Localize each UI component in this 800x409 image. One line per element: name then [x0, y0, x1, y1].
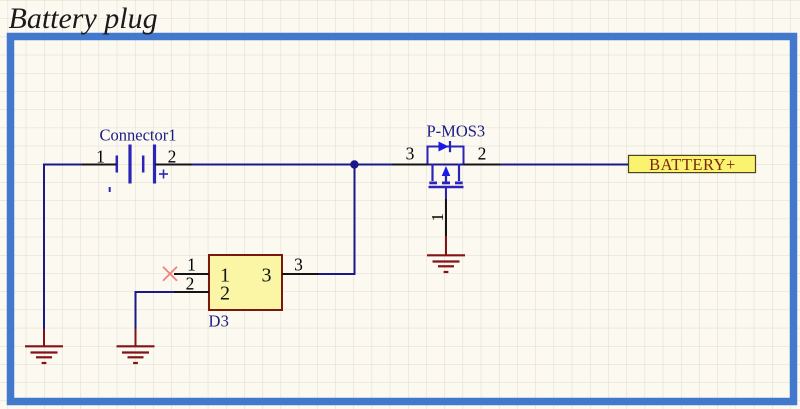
body-diode cathode bar	[449, 141, 451, 152]
title: Battery plug	[9, 2, 158, 35]
wire: from D3 pin2 left to GND	[136, 291, 175, 293]
svg-text:1: 1	[187, 255, 196, 275]
polarity label + of Connector1	[159, 170, 168, 179]
body arrow of P-MOS3	[442, 166, 451, 176]
gate plate of P-MOS3	[429, 186, 464, 189]
pin 2 of Connector1	[155, 164, 192, 166]
pin 1 of D3	[174, 273, 209, 275]
svg-text:2: 2	[220, 283, 230, 305]
wire: battery pin1 to left corner	[43, 164, 82, 166]
wire: left vertical from battery pin 1 down to GND	[43, 164, 45, 330]
port BATTERY+	[629, 155, 756, 174]
svg-text:Battery plug: Battery plug	[9, 2, 158, 35]
svg-text:3: 3	[262, 265, 272, 287]
component D3 body	[209, 255, 282, 310]
svg-text:D3: D3	[209, 312, 230, 331]
svg-text:2: 2	[186, 274, 195, 294]
pin 1 of Connector1	[82, 164, 117, 166]
ground (left, under battery)	[25, 329, 63, 363]
svg-text:3: 3	[406, 144, 415, 164]
pin number 2 of P-MOS3	[478, 144, 487, 164]
wire: vertical from D3 pin2 wire down to GND	[135, 291, 137, 329]
svg-text:Connector1: Connector1	[100, 126, 177, 145]
transistor P-MOS3	[428, 141, 464, 200]
designator label Connector1	[100, 126, 177, 145]
pin name 1 inside D3	[220, 265, 230, 287]
pin number 3 of D3	[294, 255, 303, 275]
svg-text:BATTERY+: BATTERY+	[649, 155, 736, 174]
source/drain internal wire of P-MOS3	[428, 164, 464, 166]
pin number 3 of P-MOS3	[406, 144, 415, 164]
pin number 2 of Connector1	[168, 147, 177, 167]
pin number 1 of P-MOS3 (rotated)	[428, 213, 447, 222]
body-diode loop of P-MOS3	[428, 147, 464, 164]
designator label P-MOS3	[427, 122, 486, 141]
pin number 1 of Connector1	[96, 147, 105, 167]
body-diode triangle	[439, 142, 449, 152]
channel bars	[429, 181, 437, 184]
pin 2 of D3	[174, 291, 209, 293]
wire: horizontal from D3 pin3 to vertical	[319, 273, 356, 275]
polarity label - of Connector1	[109, 187, 111, 192]
wire: battery pin2 to P-MOS3 pin3	[192, 164, 392, 166]
battery connector Connector1	[117, 145, 155, 184]
pin 1 of P-MOS3 (gate, vertical)	[445, 199, 447, 237]
ground (under P-MOS3 gate)	[427, 236, 465, 272]
svg-text:2: 2	[168, 147, 177, 167]
junction	[350, 160, 358, 168]
svg-text:3: 3	[294, 255, 303, 275]
gate stub of P-MOS3	[445, 188, 447, 200]
ground (middle, from D3 pin 2)	[117, 329, 155, 363]
svg-text:2: 2	[478, 144, 487, 164]
pin 3 of D3	[282, 273, 319, 275]
designator label D3	[209, 312, 230, 331]
pin number 2 of D3	[186, 274, 195, 294]
svg-text:P-MOS3: P-MOS3	[427, 122, 486, 141]
pin 2 of P-MOS3	[464, 164, 501, 166]
drain stub	[431, 164, 433, 182]
pin 3 of P-MOS3	[392, 164, 428, 166]
svg-text:1: 1	[96, 147, 105, 167]
source stub	[458, 164, 460, 182]
pin name 2 inside D3	[220, 283, 230, 305]
wire: vertical from junction down to D3 pin3	[354, 165, 356, 275]
no-connect marker on D3 pin 1	[163, 267, 177, 281]
pin name 3 inside D3	[262, 265, 272, 287]
svg-text:1: 1	[428, 213, 447, 222]
wire: P-MOS3 pin2 to BATTERY+ port	[500, 164, 629, 166]
pin number 1 of D3	[187, 255, 196, 275]
